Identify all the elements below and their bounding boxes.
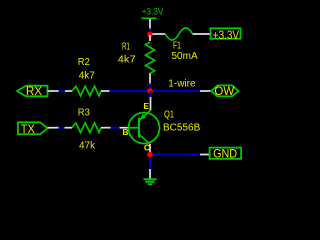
wire OW pin [200, 90, 211, 92]
junction C (collector node) [147, 152, 153, 158]
svg-text:C: C [144, 143, 150, 153]
ground [144, 179, 157, 184]
wire collector pin [149, 144, 151, 153]
wire 1-wire net [110, 90, 201, 92]
svg-text:+3.3V: +3.3V [213, 28, 239, 42]
fuse F1 [153, 28, 211, 40]
svg-text:4k7: 4k7 [79, 71, 96, 82]
svg-text:R3: R3 [78, 107, 90, 118]
resistor R3 [65, 123, 111, 133]
svg-text:OW: OW [214, 84, 234, 98]
svg-text:R1: R1 [122, 42, 130, 53]
junction B (1-wire node) [147, 88, 153, 94]
svg-text:1-wire: 1-wire [168, 78, 196, 89]
flag +3.3V [211, 28, 241, 42]
svg-text:+3.3V: +3.3V [142, 7, 164, 17]
wire ground pin [149, 169, 151, 179]
transistor Q1 [129, 110, 160, 144]
wire net emitter to 1-wire [150, 91, 152, 97]
svg-text:R2: R2 [78, 57, 90, 68]
wire GND flag pin [200, 154, 210, 156]
power symbol +3.3V [142, 7, 164, 29]
flag OW [211, 84, 239, 98]
wire net collector to ground [149, 157, 151, 169]
wire net RX-R2 [59, 90, 66, 92]
wire power net [149, 29, 151, 35]
wire net R3-base [111, 127, 120, 129]
svg-text:Q1: Q1 [164, 110, 174, 121]
svg-text:BC556B: BC556B [163, 122, 201, 133]
resistor R1 [146, 35, 155, 84]
wire RX pin [48, 90, 59, 92]
wire collector net to GND flag [153, 154, 200, 156]
svg-text:47k: 47k [79, 140, 96, 151]
svg-text:4k7: 4k7 [118, 54, 136, 65]
svg-text:E: E [143, 101, 149, 111]
svg-text:B: B [122, 127, 128, 137]
flag GND [210, 147, 242, 161]
flag TX [18, 122, 48, 136]
svg-text:GND: GND [213, 147, 237, 161]
wire TX pin [48, 127, 59, 129]
wire net TX-R3 [59, 127, 65, 129]
svg-text:TX: TX [21, 122, 35, 136]
flag RX [17, 84, 48, 98]
svg-text:RX: RX [26, 84, 42, 98]
svg-text:50mA: 50mA [172, 51, 198, 62]
wire base pin [120, 127, 129, 129]
junction A (power node) [147, 32, 153, 38]
wire R1 to 1-wire net [149, 84, 151, 92]
wire emitter pin [150, 97, 152, 110]
resistor R2 [65, 86, 110, 96]
